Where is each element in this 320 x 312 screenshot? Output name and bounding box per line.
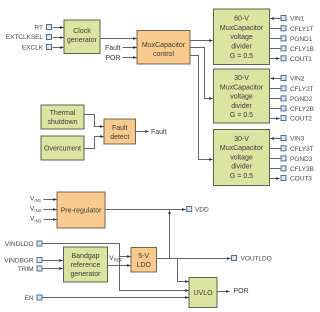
svg-text:Thermal: Thermal <box>50 110 76 117</box>
svg-text:VINDBGR: VINDBGR <box>4 258 34 265</box>
block 30-V MuxCapacitor voltage divider 3 <box>214 130 270 186</box>
block Pre-regulator <box>57 192 105 228</box>
block MuxCapacitor control <box>137 31 190 65</box>
wire MuxCapacitor control to 30-V divider 3 <box>191 56 213 160</box>
pin EN <box>37 295 42 300</box>
pin VINDLDO <box>37 241 42 246</box>
svg-text:CFLY1T: CFLY1T <box>290 26 314 33</box>
svg-text:Overcurrent: Overcurrent <box>44 146 81 153</box>
wire LDO output up to VDD rail <box>169 211 171 259</box>
svg-text:EN: EN <box>25 295 34 302</box>
svg-text:Bandgap: Bandgap <box>71 253 99 260</box>
svg-text:LDO: LDO <box>137 262 152 269</box>
wire CFLY3B <box>270 168 281 170</box>
svg-text:divider: divider <box>231 103 252 110</box>
svg-text:CFLY2T: CFLY2T <box>290 86 314 93</box>
wire Pre-regulator to VDD <box>106 209 186 211</box>
svg-text:detect: detect <box>110 134 129 141</box>
wire EN to UVLO <box>43 297 189 299</box>
svg-text:voltage: voltage <box>230 94 253 101</box>
pin CFLY1B <box>281 46 286 51</box>
block Clock generator <box>64 20 100 54</box>
wire COUT1 output <box>270 58 280 60</box>
pin PGND3 <box>281 156 286 161</box>
svg-text:POR: POR <box>234 288 249 295</box>
svg-text:VIN2: VIN2 <box>30 205 42 213</box>
block 30-V MuxCapacitor voltage divider 2 <box>214 69 270 123</box>
pin CFLY3B <box>281 166 286 171</box>
svg-text:MuxCapacitor: MuxCapacitor <box>220 145 264 152</box>
pin PGND1 <box>281 36 286 41</box>
svg-text:VIN2: VIN2 <box>290 76 305 83</box>
svg-text:G = 0.5: G = 0.5 <box>230 173 253 180</box>
pin VIN2 <box>281 76 286 81</box>
wire VIN3 supply to Pre-regulator <box>44 219 57 221</box>
svg-text:CFLY3B: CFLY3B <box>290 166 315 173</box>
wire VIN3 into divider 3 <box>271 138 281 140</box>
svg-text:generator: generator <box>67 37 98 44</box>
wire CFLY1T <box>270 28 281 30</box>
svg-text:G = 0.5: G = 0.5 <box>230 112 253 119</box>
wire POR to MuxCapacitor control <box>123 57 137 59</box>
svg-text:COUT3: COUT3 <box>290 176 312 183</box>
wire VIN1 into divider 1 <box>271 18 281 20</box>
pin RT <box>47 25 52 30</box>
svg-text:VIN1: VIN1 <box>30 195 42 203</box>
svg-text:shutdown: shutdown <box>48 119 78 126</box>
svg-text:PGND2: PGND2 <box>290 96 313 103</box>
wire VIN2 into divider 2 <box>271 78 281 80</box>
svg-text:5-V: 5-V <box>138 253 149 260</box>
pin VIN3 <box>281 136 286 141</box>
svg-text:divider: divider <box>231 164 252 171</box>
svg-text:reference: reference <box>71 262 101 269</box>
pin VOUTLDO <box>232 256 237 261</box>
svg-text:MuxCapacitor: MuxCapacitor <box>220 25 264 32</box>
wire VREF Bandgap to 5-V LDO <box>108 265 131 267</box>
block 60-V MuxCapacitor voltage divider <box>214 9 270 65</box>
block Fault detect <box>104 119 136 144</box>
svg-text:EXCLK: EXCLK <box>22 45 44 52</box>
pin CFLY1T <box>281 26 286 31</box>
wire EXTCLKSEL to Clock generator <box>53 37 64 39</box>
wire MuxCapacitor control to 30-V divider 2 <box>191 48 213 99</box>
svg-text:CFLY1B: CFLY1B <box>290 46 315 53</box>
block Overcurrent <box>41 136 84 160</box>
pin EXCLK <box>47 45 52 50</box>
svg-text:Clock: Clock <box>73 28 91 35</box>
pin CFLY3T <box>281 146 286 151</box>
svg-text:VIN3: VIN3 <box>30 216 42 224</box>
block Bandgap reference generator <box>64 247 108 282</box>
svg-text:generator: generator <box>71 271 102 278</box>
wire 5-V LDO output to VOUTLDO <box>157 258 231 260</box>
wire VINDLDO branch down to UVLO <box>120 257 189 291</box>
svg-text:EXTCLKSEL: EXTCLKSEL <box>6 34 44 41</box>
pin CFLY2B <box>281 106 286 111</box>
svg-text:MuxCapacitor: MuxCapacitor <box>220 84 264 91</box>
svg-text:control: control <box>153 51 174 58</box>
wire COUT2 output <box>270 118 280 120</box>
wire VIN1 supply to Pre-regulator <box>44 199 57 201</box>
pin COUT3 <box>281 176 286 181</box>
wire UVLO to POR <box>218 291 230 293</box>
svg-text:RT: RT <box>35 25 44 32</box>
wire PGND2 <box>270 98 281 100</box>
block Thermal shutdown <box>41 105 84 129</box>
pin CFLY2T <box>281 86 286 91</box>
svg-text:COUT2: COUT2 <box>290 116 312 123</box>
svg-text:divider: divider <box>231 44 252 51</box>
svg-text:voltage: voltage <box>230 34 253 41</box>
svg-text:PGND3: PGND3 <box>290 156 313 163</box>
svg-text:Fault: Fault <box>105 45 121 52</box>
svg-text:VINDLDO: VINDLDO <box>5 241 34 248</box>
wire VINDLDO to 5-V LDO <box>43 244 131 257</box>
wire CFLY3T <box>270 148 281 150</box>
svg-text:CFLY2B: CFLY2B <box>290 106 315 113</box>
wire VIN2 supply to Pre-regulator <box>44 209 57 211</box>
wire PGND1 <box>270 38 281 40</box>
svg-text:30-V: 30-V <box>234 75 249 82</box>
wire CFLY1B <box>270 48 281 50</box>
svg-text:POR: POR <box>105 55 120 62</box>
wire Fault to MuxCapacitor control <box>123 47 137 49</box>
wire EXCLK to Clock generator <box>53 47 64 49</box>
wire Overcurrent to Fault detect <box>85 137 104 149</box>
svg-text:VDD: VDD <box>195 207 209 214</box>
svg-text:Fault: Fault <box>151 129 167 136</box>
svg-text:VREF: VREF <box>109 255 123 263</box>
wire Thermal shutdown to Fault detect <box>85 115 104 127</box>
wire CFLY2T <box>270 88 281 90</box>
wire COUT3 output <box>270 178 280 180</box>
svg-text:PGND1: PGND1 <box>290 36 313 43</box>
wire RT to Clock generator <box>53 27 64 29</box>
svg-text:VOUTLDO: VOUTLDO <box>241 256 272 263</box>
svg-text:VIN3: VIN3 <box>290 136 305 143</box>
wire PGND3 <box>270 158 281 160</box>
wire CFLY2B <box>270 108 281 110</box>
wire MuxCapacitor control to 60-V divider <box>191 40 213 42</box>
wire LDO output branch down to UVLO <box>178 259 189 282</box>
pin EXTCLKSEL <box>47 35 52 40</box>
svg-text:voltage: voltage <box>230 154 253 161</box>
pin VIN1 <box>281 16 286 21</box>
svg-text:30-V: 30-V <box>234 136 249 143</box>
wire VINDBGR to Bandgap <box>43 260 63 262</box>
pin COUT2 <box>281 116 286 121</box>
svg-text:Fault: Fault <box>112 125 128 132</box>
pin COUT1 <box>281 56 286 61</box>
wire Clock generator to MuxCapacitor control <box>101 38 137 40</box>
block UVLO <box>189 278 217 308</box>
pin VDD <box>187 207 192 212</box>
wire Fault detect output <box>136 131 149 133</box>
svg-text:G = 0.5: G = 0.5 <box>230 53 253 60</box>
pin VINDBGR <box>37 258 42 263</box>
wire TRIM to Bandgap <box>43 268 63 270</box>
svg-text:VIN1: VIN1 <box>290 16 305 23</box>
svg-text:UVLO: UVLO <box>193 290 213 297</box>
svg-text:TRIM: TRIM <box>18 266 34 273</box>
svg-text:COUT1: COUT1 <box>290 56 312 63</box>
svg-text:MuxCapacitor: MuxCapacitor <box>142 42 186 49</box>
block 5-V LDO <box>131 248 157 273</box>
pin TRIM <box>37 266 42 271</box>
pin PGND2 <box>281 96 286 101</box>
svg-text:60-V: 60-V <box>234 16 249 23</box>
svg-text:CFLY3T: CFLY3T <box>290 146 314 153</box>
svg-text:Pre-regulator: Pre-regulator <box>61 208 103 215</box>
